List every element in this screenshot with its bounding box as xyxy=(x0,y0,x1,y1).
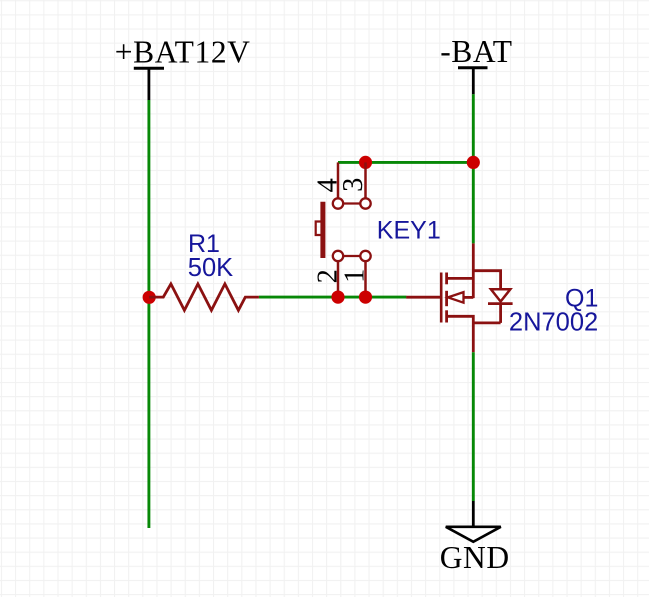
drain vertical xyxy=(472,243,475,298)
junction pin1 xyxy=(359,291,372,304)
pin 2 stub xyxy=(337,256,340,297)
channel bar bottom xyxy=(445,310,448,322)
channel bar middle xyxy=(445,291,448,306)
body diode cathode link xyxy=(473,304,500,323)
junction pin2 xyxy=(331,291,344,304)
power flag +BAT12V bar xyxy=(134,67,164,70)
contact circle pin3 xyxy=(360,198,370,208)
actuator bump xyxy=(316,222,321,236)
body diode cathode bar xyxy=(488,302,513,305)
svg-text:2N7002: 2N7002 xyxy=(509,309,598,337)
junction top at pin3 xyxy=(359,156,372,169)
pin 1 stub xyxy=(364,256,367,297)
source link xyxy=(447,316,474,352)
body diode anode link xyxy=(473,271,500,290)
ground triangle xyxy=(446,527,501,542)
junction resistor left xyxy=(143,291,156,304)
body diode triangle xyxy=(491,289,510,301)
gate lead xyxy=(406,296,440,299)
wire left vertical xyxy=(147,100,150,528)
svg-text:+BAT12V: +BAT12V xyxy=(115,35,251,70)
svg-text:KEY1: KEY1 xyxy=(377,217,441,245)
contact circle pin2 xyxy=(333,251,343,261)
pin 4 stub xyxy=(337,162,340,203)
contact link top xyxy=(338,202,366,204)
channel bar top xyxy=(445,273,448,285)
contact link bottom xyxy=(338,255,366,257)
svg-text:1: 1 xyxy=(340,268,371,283)
power flag -BAT stem xyxy=(472,68,475,95)
wire right vertical upper xyxy=(472,94,475,243)
power flag +BAT12V stem xyxy=(147,68,150,100)
svg-text:3: 3 xyxy=(338,177,369,192)
pin 3 stub xyxy=(364,162,367,203)
actuator bar xyxy=(320,202,325,258)
contact circle pin4 xyxy=(333,198,343,208)
mosfet Q1 xyxy=(406,243,512,352)
pushbutton KEY1 xyxy=(316,162,371,297)
wire top horizontal xyxy=(338,161,473,164)
wire bottom horizontal xyxy=(259,296,407,299)
power flag -BAT bar xyxy=(458,66,488,69)
body line xyxy=(464,296,474,299)
wire right vertical lower xyxy=(472,352,475,501)
ground stem xyxy=(472,501,475,527)
junction top right xyxy=(467,156,480,169)
svg-text:50K: 50K xyxy=(188,254,233,282)
svg-text:GND: GND xyxy=(440,540,510,575)
drain link xyxy=(447,277,474,280)
body arrow xyxy=(448,292,464,303)
contact circle pin1 xyxy=(360,251,370,261)
gate line xyxy=(440,273,443,323)
svg-text:-BAT: -BAT xyxy=(440,34,512,69)
resistor R1 xyxy=(149,284,259,310)
